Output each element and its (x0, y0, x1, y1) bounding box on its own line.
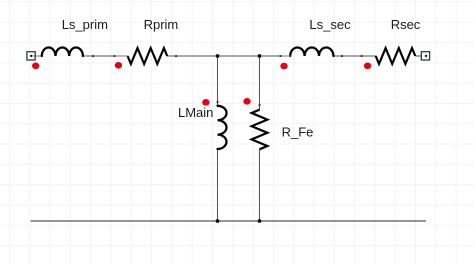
wire: Rprim to Ls_sec (through junctions) (167, 55, 290, 57)
marker dot Ls_sec (280, 63, 287, 70)
node junction A (216, 54, 220, 58)
wire: port to Ls_prim lead (33, 55, 42, 57)
wire endpoint dot (217, 101, 219, 103)
wire endpoint dot (114, 55, 116, 57)
wire: Ls_sec to Rsec (334, 55, 377, 57)
marker dot LMain (202, 99, 209, 106)
inductor Ls_prim (42, 48, 83, 57)
port P1 (left terminal) (27, 52, 35, 60)
wire endpoint dot (92, 55, 94, 57)
marker dot Ls_prim (32, 63, 39, 70)
wire: Rsec to right port (416, 55, 422, 57)
node junction bottom B (258, 219, 262, 223)
svg-text:Ls_prim: Ls_prim (62, 17, 108, 32)
wire endpoint dot (259, 104, 261, 106)
wire endpoint dot (341, 55, 343, 57)
lead wire Ls_sec (tinted) (282, 55, 291, 57)
wire: Ls_prim to Rprim (83, 55, 128, 57)
inductor Ls_sec (290, 48, 333, 57)
wire: R_Fe down to bottom rail (259, 150, 261, 222)
svg-text:Rsec: Rsec (391, 17, 421, 32)
svg-text:R_Fe: R_Fe (282, 125, 314, 140)
svg-text:Ls_sec: Ls_sec (309, 17, 351, 32)
wire: bottom rail (31, 220, 427, 222)
marker dot Rsec (364, 63, 371, 70)
inductor LMain (vertical) (218, 106, 227, 149)
resistor R_Fe (vertical) (252, 110, 268, 150)
marker dot R_Fe (243, 98, 250, 105)
wire: junction B down to R_Fe (259, 56, 261, 110)
wire endpoint dot (280, 55, 282, 57)
wire: LMain down to bottom rail (217, 149, 219, 221)
port P2 (right terminal) (421, 52, 429, 60)
svg-text:Rprim: Rprim (144, 17, 179, 32)
wire endpoint dot (175, 55, 177, 57)
marker dot Rprim (115, 62, 122, 69)
lead wire Rprim (tinted) (116, 55, 128, 57)
node junction B (258, 54, 262, 58)
wire endpoint dot (361, 55, 363, 57)
resistor Rprim (128, 48, 168, 64)
svg-text:LMain: LMain (178, 105, 213, 120)
resistor Rsec (376, 48, 416, 64)
wire: junction A down to LMain (217, 56, 219, 106)
node junction bottom A (216, 219, 220, 223)
